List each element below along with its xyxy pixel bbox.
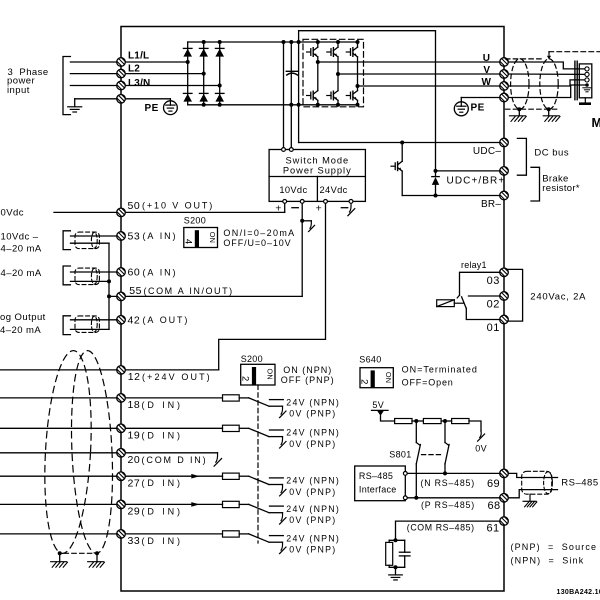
svg-text:RS–485: RS–485 (561, 477, 598, 488)
svg-text:18: 18 (128, 399, 141, 411)
svg-text:PE: PE (145, 103, 159, 114)
svg-text:24V (NPN): 24V (NPN) (286, 476, 340, 486)
svg-text:10Vdc: 10Vdc (279, 185, 307, 195)
svg-text:(D IN): (D IN) (142, 506, 183, 516)
svg-text:(COM D IN): (COM D IN) (142, 455, 208, 465)
svg-text:OFF=Open: OFF=Open (402, 377, 454, 387)
svg-text:4–20 mA: 4–20 mA (1, 243, 42, 254)
svg-text:+: + (316, 202, 322, 214)
svg-text:2: 2 (359, 379, 370, 384)
svg-text:(D IN): (D IN) (142, 536, 183, 546)
svg-text:12: 12 (128, 371, 141, 383)
svg-text:0V: 0V (475, 444, 487, 454)
svg-text:OFF/U=0–10V: OFF/U=0–10V (223, 238, 291, 248)
svg-text:19: 19 (128, 430, 141, 442)
svg-text:24Vdc: 24Vdc (320, 185, 348, 195)
svg-text:DC bus: DC bus (534, 148, 569, 159)
svg-text:4–20 mA: 4–20 mA (0, 325, 41, 336)
svg-text:0V (PNP): 0V (PNP) (289, 515, 336, 525)
svg-text:(A IN): (A IN) (143, 267, 178, 277)
svg-text:69: 69 (487, 478, 500, 490)
svg-text:ON (NPN): ON (NPN) (283, 365, 332, 375)
svg-text:PE: PE (471, 103, 485, 114)
svg-text:24V (NPN): 24V (NPN) (286, 504, 340, 514)
svg-text:S801: S801 (389, 450, 411, 460)
svg-text:03: 03 (487, 275, 500, 287)
svg-text:(PNP) = Source: (PNP) = Source (511, 542, 598, 552)
svg-text:24V (NPN): 24V (NPN) (286, 533, 340, 543)
svg-text:61: 61 (487, 522, 500, 534)
svg-text:(D IN): (D IN) (142, 478, 183, 488)
svg-text:ON=Terminated: ON=Terminated (402, 364, 478, 374)
svg-text:(D IN): (D IN) (142, 400, 183, 410)
svg-text:0V (PNP): 0V (PNP) (289, 487, 336, 497)
svg-text:60: 60 (128, 267, 141, 279)
svg-text:L2: L2 (128, 64, 140, 75)
svg-text:4–20 mA: 4–20 mA (1, 268, 42, 279)
svg-text:02: 02 (487, 299, 500, 311)
svg-text:2: 2 (239, 376, 250, 381)
svg-text:0V (PNP): 0V (PNP) (289, 545, 336, 555)
svg-text:L1/L: L1/L (128, 51, 149, 62)
svg-text:M: M (592, 116, 600, 130)
svg-text:UDC+/BR+: UDC+/BR+ (447, 176, 506, 187)
svg-text:ON: ON (208, 232, 217, 243)
svg-text:(+10 V OUT): (+10 V OUT) (142, 201, 214, 211)
svg-text:50: 50 (128, 200, 141, 212)
svg-text:S200: S200 (184, 216, 206, 226)
svg-text:(N RS–485): (N RS–485) (421, 478, 475, 488)
svg-text:(A IN): (A IN) (143, 231, 178, 241)
svg-text:ON: ON (384, 372, 393, 383)
svg-text:24V (NPN): 24V (NPN) (286, 397, 340, 407)
svg-text:20: 20 (128, 454, 141, 466)
svg-text:42: 42 (128, 314, 141, 326)
svg-text:(D IN): (D IN) (142, 430, 183, 440)
svg-text:ON: ON (266, 369, 275, 380)
svg-text:RS–485: RS–485 (359, 471, 393, 481)
svg-text:240Vac, 2A: 240Vac, 2A (530, 292, 586, 303)
svg-text:(NPN) = Sink: (NPN) = Sink (511, 556, 585, 566)
svg-text:ON/I=0–20mA: ON/I=0–20mA (223, 228, 295, 238)
svg-text:5V: 5V (372, 400, 384, 410)
svg-text:S200: S200 (241, 354, 263, 364)
svg-text:0V (PNP): 0V (PNP) (289, 409, 336, 419)
svg-text:relay1: relay1 (461, 260, 487, 270)
svg-text:130BA242.16: 130BA242.16 (557, 589, 600, 596)
svg-text:0V (PNP): 0V (PNP) (289, 439, 336, 449)
svg-text:55: 55 (129, 285, 142, 297)
svg-text:input: input (7, 85, 30, 96)
svg-text:01: 01 (487, 322, 500, 334)
svg-text:(+24V OUT): (+24V OUT) (142, 372, 212, 382)
svg-text:24V (NPN): 24V (NPN) (286, 428, 340, 438)
svg-text:Switch Mode: Switch Mode (285, 155, 349, 165)
svg-text:og Output: og Output (0, 312, 46, 323)
svg-text:resistor*: resistor* (542, 183, 580, 194)
svg-text:U: U (483, 53, 490, 64)
svg-text:OFF (PNP): OFF (PNP) (281, 375, 335, 385)
svg-text:4: 4 (182, 239, 193, 244)
svg-text:BR–: BR– (481, 199, 501, 210)
svg-text:W: W (482, 77, 492, 88)
svg-text:29: 29 (128, 506, 141, 518)
svg-text:S640: S640 (359, 355, 381, 365)
svg-text:68: 68 (488, 500, 501, 512)
svg-text:(A OUT): (A OUT) (143, 315, 190, 325)
svg-text:10Vdc –: 10Vdc – (1, 231, 39, 242)
svg-text:(COM RS–485): (COM RS–485) (407, 522, 475, 532)
svg-text:Interface: Interface (359, 484, 397, 494)
svg-text:0Vdc: 0Vdc (1, 207, 24, 218)
svg-text:UDC–: UDC– (473, 146, 502, 157)
svg-text:(COM A IN/OUT): (COM A IN/OUT) (144, 286, 234, 296)
svg-text:33: 33 (128, 535, 141, 547)
svg-text:27: 27 (128, 477, 141, 489)
svg-text:(P RS–485): (P RS–485) (421, 500, 475, 510)
svg-text:V: V (483, 65, 490, 76)
svg-text:Power Supply: Power Supply (283, 165, 352, 175)
svg-text:53: 53 (128, 230, 141, 242)
svg-text:L3/N: L3/N (128, 78, 150, 89)
